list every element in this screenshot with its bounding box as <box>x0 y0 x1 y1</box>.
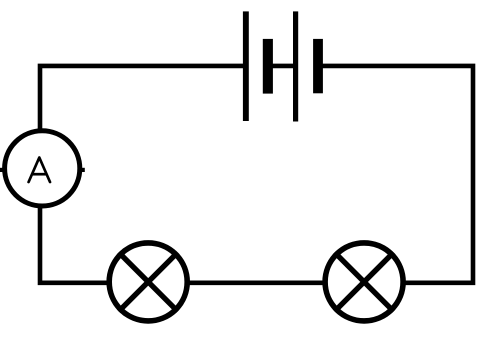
right stub <box>81 168 85 172</box>
wire between cells <box>267 64 296 69</box>
wire: bottom-left segment (lamp1 to corner + left vertical lower) <box>40 206 108 283</box>
battery B1 (two cells) <box>243 11 323 121</box>
cell 1 long plate (+) <box>243 11 249 121</box>
ammeter A1 <box>0 131 85 206</box>
cell 2 long plate (+) <box>293 11 298 121</box>
label A <box>29 158 50 183</box>
ammeter body circle <box>5 131 80 206</box>
wire: between lamps <box>189 280 324 285</box>
cell 1 short plate (-) <box>263 39 273 94</box>
left stub <box>0 168 4 172</box>
cell 2 short plate (-) <box>313 39 323 93</box>
lamp L2 <box>325 243 403 321</box>
wire: top-left segment (left vertical upper + top horizontal to battery) <box>40 66 244 130</box>
wire: battery to top-right corner and right vertical <box>318 66 474 283</box>
lamp L1 <box>109 243 187 321</box>
